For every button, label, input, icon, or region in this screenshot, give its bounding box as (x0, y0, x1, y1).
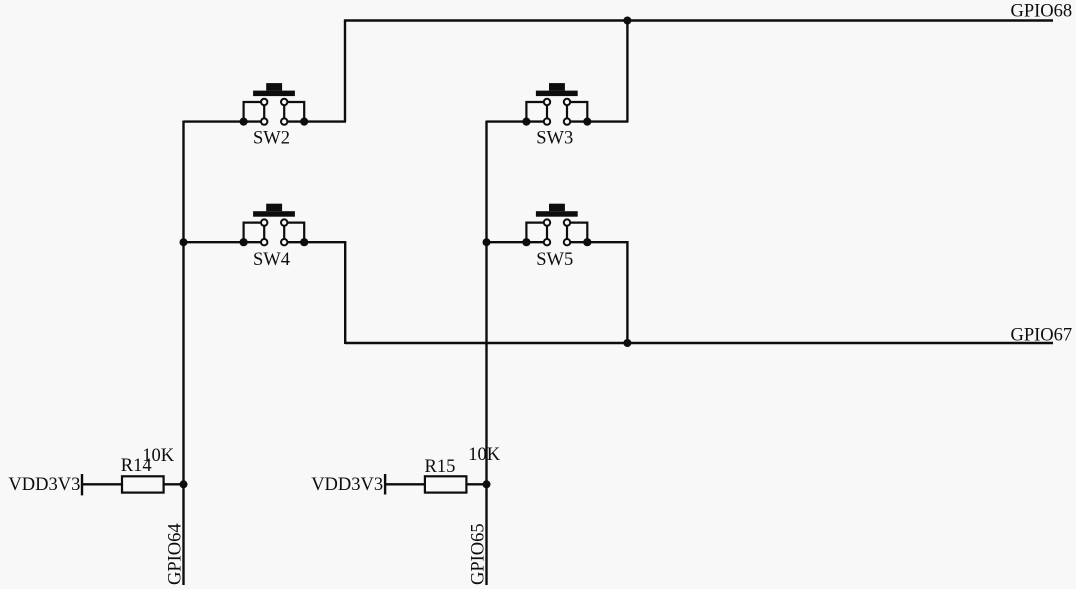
svg-text:SW2: SW2 (253, 129, 290, 149)
switch SW3 (522, 83, 591, 148)
svg-text:VDD3V3: VDD3V3 (311, 475, 383, 495)
power pin VDD3V3 (right) (311, 474, 385, 495)
wire SW3 left lead (487, 120, 548, 122)
resistor R15 (425, 457, 467, 493)
wire R15 to right column (466, 483, 486, 485)
wire SW2 right riser to GPIO68 (344, 20, 346, 122)
wire VDD3V3 stub to R15 (385, 483, 425, 485)
switch SW4 (240, 204, 309, 270)
wire SW4 left lead (184, 241, 265, 243)
svg-text:GPIO64: GPIO64 (166, 523, 186, 585)
svg-text:10K: 10K (468, 445, 501, 465)
svg-text:GPIO65: GPIO65 (468, 523, 488, 585)
svg-text:10K: 10K (142, 446, 175, 466)
wire R14 to left column (164, 483, 184, 485)
wire SW2 left lead (184, 120, 265, 122)
svg-text:GPIO68: GPIO68 (1011, 1, 1073, 21)
svg-text:SW5: SW5 (536, 250, 573, 270)
wire SW5 right drop to GPIO67 (626, 241, 628, 343)
svg-text:VDD3V3: VDD3V3 (8, 475, 80, 495)
wire SW4 right lead (284, 241, 346, 243)
wire SW4 right drop to GPIO67 (344, 241, 346, 344)
wire right column (GPIO65 net) vertical (485, 121, 487, 585)
wire left column (GPIO64 net) vertical (182, 121, 184, 585)
wire SW3 right lead (567, 120, 628, 122)
wire GPIO68 net top horizontal (344, 19, 1053, 21)
junction dot right column / R15 (483, 480, 491, 488)
wire SW5 right lead (567, 241, 628, 243)
wire GPIO67 net horizontal (345, 342, 1053, 344)
switch SW2 (240, 83, 309, 148)
wire VDD3V3 stub to R14 (82, 483, 122, 485)
svg-text:R15: R15 (425, 457, 456, 477)
switch SW5 (522, 204, 591, 270)
svg-text:SW3: SW3 (536, 129, 573, 149)
junction dot GPIO68/SW3 riser (623, 17, 631, 25)
junction dot left column / R14 (180, 480, 188, 488)
svg-text:SW4: SW4 (253, 250, 290, 270)
wire SW2 right lead (284, 120, 346, 122)
junction dot left column / SW4 (180, 238, 188, 246)
svg-text:GPIO67: GPIO67 (1011, 325, 1073, 345)
resistor R14 (121, 456, 164, 492)
wire SW3 right riser to GPIO68 (626, 20, 628, 122)
junction dot GPIO67/SW5 drop (623, 339, 631, 347)
junction dot right column / SW5 (483, 238, 491, 246)
wire SW5 left lead (487, 241, 548, 243)
power pin VDD3V3 (left) (8, 474, 82, 495)
